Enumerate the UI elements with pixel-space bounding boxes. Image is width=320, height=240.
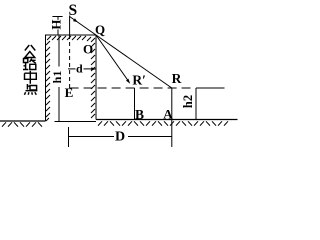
hatching right edge (91, 43, 95, 118)
char zhong (25, 71, 37, 84)
svg-text:S: S (68, 2, 77, 19)
svg-text:O: O (83, 42, 93, 57)
ray S to Q (70, 17, 96, 36)
vertical R to A and D-tick (171, 88, 173, 147)
wall left edge (45, 35, 47, 121)
white box for H label (52, 20, 63, 30)
right ground hatching (98, 121, 228, 125)
svg-text:A: A (163, 107, 173, 122)
h2 bracket horizontal (196, 87, 225, 89)
svg-text:D: D (115, 130, 125, 145)
white box for h2 label (183, 90, 195, 112)
road surface line (55, 121, 97, 123)
left ground hatching (2, 122, 42, 126)
vertical R' to B (134, 88, 136, 120)
svg-text:d: d (76, 62, 83, 76)
svg-text:B: B (135, 107, 144, 122)
left ground line (0, 120, 46, 122)
svg-text:Q: Q (95, 22, 105, 37)
white box for h1 label (53, 67, 64, 88)
d arrowhead (91, 67, 96, 70)
svg-text:R′: R′ (132, 73, 146, 88)
ray Q toward R' (arrow) (96, 35, 128, 81)
arrowhead on ray S-Q near S (73, 18, 78, 22)
wall top edge (45, 34, 96, 36)
d dimension line right segment with arrow (84, 68, 97, 70)
char lu (23, 59, 36, 70)
D dimension left tick (68, 127, 70, 147)
h1 dimension vertical (58, 35, 60, 122)
svg-text:E: E (65, 85, 74, 100)
d dimension line left segment (68, 68, 76, 70)
svg-text:h2: h2 (181, 95, 195, 108)
H dimension top tick (52, 16, 62, 18)
svg-text:R: R (172, 71, 182, 86)
right ground line (96, 119, 238, 121)
S vertical dashed to E (69, 35, 71, 88)
svg-text:H: H (49, 20, 64, 30)
char dian (24, 84, 37, 95)
white box for D label (114, 130, 128, 143)
h2 bracket vertical (195, 88, 197, 120)
svg-text:h1: h1 (50, 71, 64, 84)
hatching left edge (46, 41, 50, 121)
char gong (25, 45, 36, 58)
wall right edge (95, 35, 97, 120)
H dimension vertical (57, 17, 59, 36)
arrowhead at R' ray (126, 79, 130, 84)
D dimension horizontal (69, 136, 172, 138)
chinese text 公路中点 (drawn strokes) (23, 45, 37, 95)
hatching top edge (47, 36, 95, 42)
S vertical solid (69, 16, 71, 36)
ray Q to R (96, 35, 172, 88)
dashed horizontal at receiver height (70, 87, 191, 89)
